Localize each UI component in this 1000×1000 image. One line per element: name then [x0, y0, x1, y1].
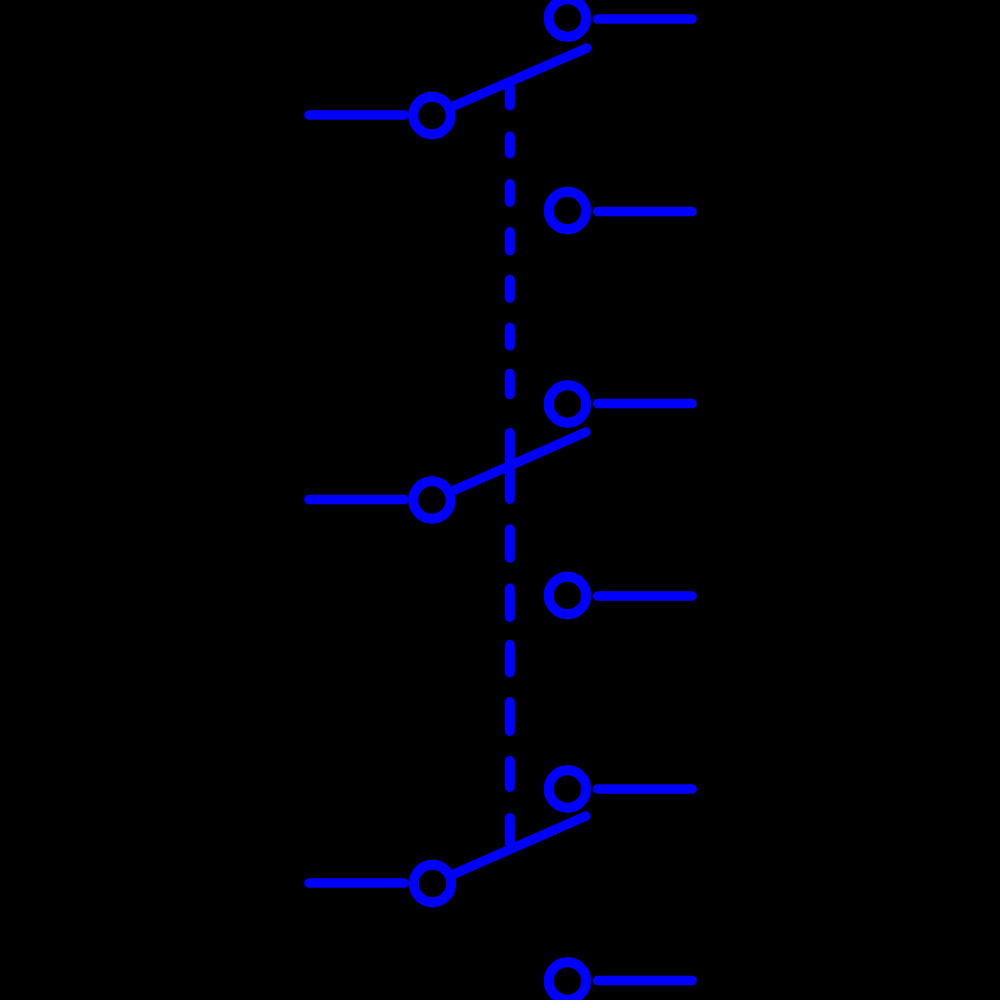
node S1 throw 1 terminal [549, 0, 586, 37]
wire S1 pole B throw 2 lead [598, 591, 693, 601]
node S1 pole C throw 2 terminal [549, 962, 586, 999]
mechanical linkage (dashed gang line between poles) [505, 87, 515, 843]
wire S1 common lead [309, 110, 404, 120]
node S1 common terminal [413, 97, 450, 134]
switch S1 pole B (middle SPDT section) [309, 385, 692, 614]
node S1 pole B throw 1 terminal [549, 385, 586, 422]
switch S1 pole C (bottom SPDT section) [309, 770, 692, 999]
switch blade S1 [452, 48, 587, 107]
wire S1 pole C throw 2 lead [598, 976, 693, 986]
node S1 pole B common terminal [413, 481, 450, 518]
wire S1 pole B throw 1 lead [598, 399, 693, 409]
node S1 throw 2 terminal [549, 192, 586, 229]
node S1 pole C throw 1 terminal [549, 770, 586, 807]
node S1 pole B throw 2 terminal [549, 577, 586, 614]
switch S1 pole A (top SPDT section) [309, 0, 692, 229]
switch blade S1 pole C [453, 816, 586, 875]
wire S1 throw 2 lead [598, 207, 693, 217]
switch blade S1 pole B [452, 432, 586, 491]
node S1 pole C common terminal [414, 865, 451, 902]
wire S1 throw 1 lead [598, 14, 693, 24]
wire S1 pole C throw 1 lead [598, 784, 693, 794]
wire S1 pole C common lead [309, 878, 404, 888]
wire S1 pole B common lead [309, 495, 404, 505]
